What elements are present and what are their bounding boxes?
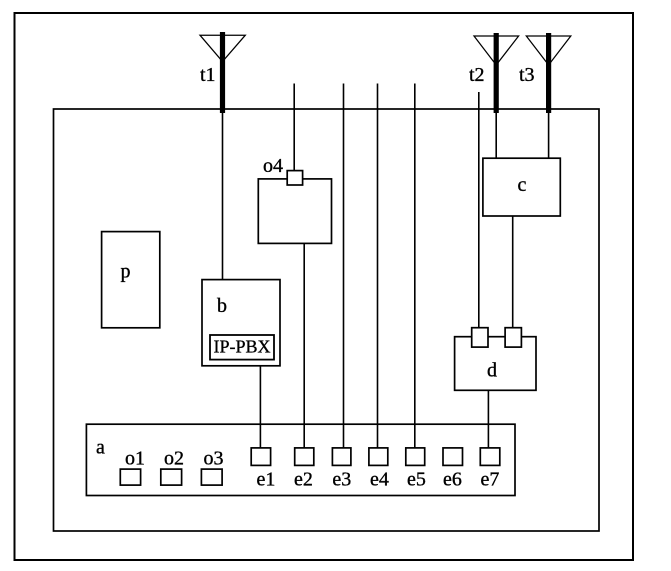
svg-text:e4: e4	[370, 469, 389, 491]
wire c to d right port	[512, 216, 514, 329]
o4 port square	[287, 171, 302, 185]
box c	[483, 158, 560, 216]
svg-text:e7: e7	[481, 469, 500, 491]
o1 square	[120, 469, 140, 485]
e6 square	[443, 448, 463, 466]
o2 square	[161, 469, 182, 485]
antenna t1	[200, 32, 245, 113]
wire t2 to box c	[495, 113, 497, 159]
wire to e5	[414, 84, 416, 449]
d left port square	[472, 328, 488, 347]
e1 square	[251, 448, 270, 466]
svg-text:b: b	[217, 295, 227, 317]
box a	[86, 424, 515, 495]
svg-text:t1: t1	[200, 64, 216, 86]
wire to e3	[343, 84, 345, 449]
d right port square	[505, 328, 521, 347]
e3 square	[332, 448, 351, 466]
svg-text:o4: o4	[263, 155, 283, 177]
wire to e4	[377, 84, 379, 449]
wire t3 to box c	[548, 113, 550, 159]
svg-text:c: c	[518, 174, 527, 196]
antenna t2	[474, 33, 519, 113]
e5 square	[406, 448, 425, 466]
svg-text:o1: o1	[125, 448, 145, 470]
box d	[455, 337, 536, 391]
wire to d left port	[478, 92, 480, 329]
box p	[102, 232, 160, 328]
e7 square	[480, 448, 500, 466]
svg-text:d: d	[487, 360, 497, 382]
svg-text:e6: e6	[443, 469, 462, 491]
o3 square	[201, 469, 222, 485]
IP-PBX box	[210, 335, 274, 360]
svg-text:o3: o3	[204, 448, 224, 470]
wire d to e7	[487, 390, 489, 448]
wire to o4 port	[293, 84, 295, 173]
wire t1 to box b	[222, 113, 224, 280]
wire b to e1	[259, 366, 261, 449]
box o4	[258, 179, 331, 244]
antenna t3	[526, 33, 571, 113]
svg-text:IP-PBX: IP-PBX	[213, 337, 270, 357]
e2 square	[295, 448, 314, 466]
svg-text:e3: e3	[332, 469, 351, 491]
e4 square	[369, 448, 388, 466]
svg-text:p: p	[121, 261, 131, 283]
svg-text:o2: o2	[164, 448, 184, 470]
svg-text:e1: e1	[257, 469, 276, 491]
svg-text:a: a	[96, 437, 105, 459]
svg-text:t3: t3	[519, 64, 535, 86]
inner system box	[54, 109, 600, 531]
svg-text:e5: e5	[407, 469, 426, 491]
svg-text:e2: e2	[294, 469, 313, 491]
wire o4 to e2	[303, 243, 305, 448]
box b	[202, 280, 280, 366]
svg-text:t2: t2	[469, 64, 485, 86]
